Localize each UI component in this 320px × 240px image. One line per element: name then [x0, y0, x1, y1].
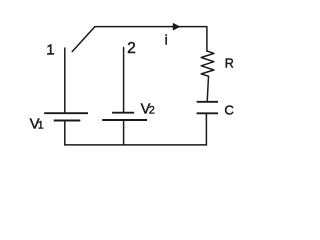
- wire switch contact 1 down to V1: [64, 48, 66, 113]
- wire capacitor bottom lead: [205, 113, 207, 145]
- svg-text:V2: V2: [141, 102, 155, 118]
- current arrow i: [173, 24, 179, 30]
- svg-text:2: 2: [127, 40, 136, 57]
- resistor R zigzag: [201, 51, 214, 76]
- battery V1 long plate: [44, 112, 88, 114]
- svg-text:V1: V1: [30, 115, 44, 132]
- wire resistor to capacitor C: [207, 76, 208, 102]
- capacitor C top plate: [197, 101, 218, 103]
- svg-text:i: i: [165, 32, 168, 48]
- wire switch contact 2 down to V2: [123, 48, 125, 113]
- wire V2 bottom lead: [123, 120, 125, 145]
- battery V1 short plate: [54, 120, 81, 122]
- svg-text:1: 1: [46, 42, 54, 59]
- battery V2 long plate: [102, 119, 147, 121]
- svg-text:R: R: [225, 57, 234, 71]
- wire V1 bottom lead: [64, 121, 66, 145]
- svg-text:C: C: [224, 102, 234, 117]
- switch blade (throw arm): [72, 27, 95, 52]
- wire bottom rail: [65, 144, 207, 146]
- capacitor C bottom plate: [197, 112, 218, 114]
- battery V2 short plate: [112, 112, 134, 114]
- wire top rail with right corner down to resistor: [95, 27, 207, 51]
